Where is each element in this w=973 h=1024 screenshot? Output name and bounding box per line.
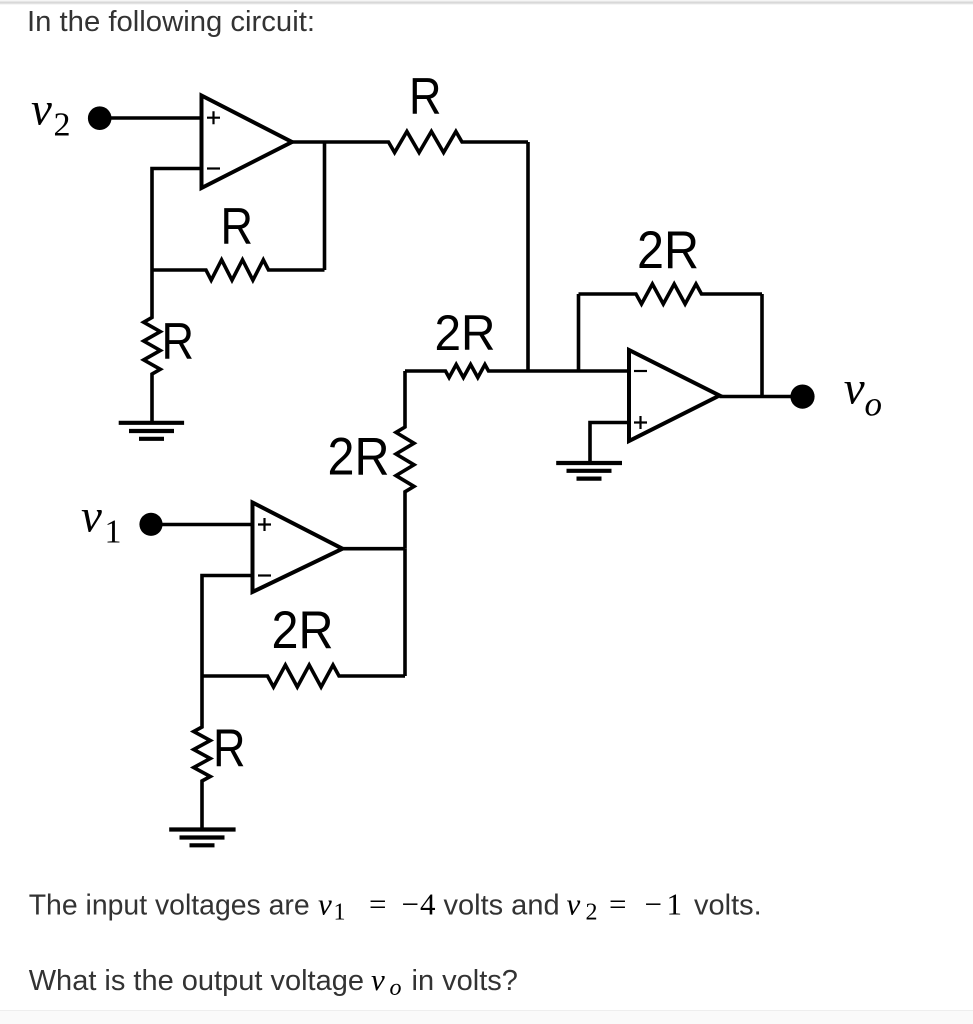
svg-text:v: v [844,363,865,415]
svg-text:−: − [402,887,419,922]
svg-text:1: 1 [667,887,683,922]
svg-text:2R: 2R [637,221,699,280]
svg-text:v: v [31,84,52,136]
resistor R (U2 node to ground) [194,676,211,828]
question text line 2 [29,962,518,1001]
svg-text:in volts?: in volts? [412,965,518,997]
bottom strip [0,1011,973,1024]
svg-text:2R: 2R [435,305,496,361]
ground (U2 R) [169,830,235,846]
svg-text:2: 2 [54,107,71,144]
resistor 2R (vertical) [396,371,414,549]
svg-text:R: R [213,719,246,778]
svg-text:1: 1 [334,900,346,926]
wire vertical node down to U2 feedback [403,549,407,676]
svg-text:2R: 2R [272,601,334,660]
svg-text:=: = [369,887,386,922]
svg-text:v: v [371,962,385,997]
svg-text:−: − [645,887,662,922]
node vo [790,385,814,409]
svg-text:v: v [318,887,332,922]
svg-text:R: R [162,313,195,371]
svg-text:2R: 2R [328,428,390,487]
svg-text:o: o [390,975,402,1001]
svg-text:volts and: volts and [444,890,560,922]
wire U3 feedback up [577,294,581,371]
resistor R (U1 feedback) [152,260,325,280]
top border strip [0,0,973,2]
wire U1 inverting input left and down [152,169,203,271]
svg-text:v: v [567,887,581,922]
op-amp U1 [202,96,293,189]
node v2 [88,106,112,130]
wire U3 noninverting input to ground [590,423,629,462]
svg-text:volts.: volts. [694,890,762,922]
wire U2 inverting input left and down [202,576,253,677]
op-amp U2 [253,503,343,593]
svg-text:1: 1 [105,514,122,551]
resistor R (U1 output series) [292,132,528,153]
wire v1 to U2 + input [159,523,253,527]
svg-text:What is the output voltage: What is the output voltage [29,965,364,997]
ground (U3 + input) [556,463,622,479]
wire node down to summing line [526,142,530,371]
svg-text:o: o [865,385,883,424]
wire U2 output to vertical node [343,547,406,551]
svg-text:v: v [81,491,102,543]
resistor R (U1 node to ground) [144,270,161,421]
question text line 1 [29,887,762,926]
wire feedback down to U3 output [760,294,764,397]
wire v2 to U1 + input [108,116,203,120]
svg-text:R: R [409,68,442,126]
svg-text:In the following circuit:: In the following circuit: [27,6,315,38]
svg-text:4: 4 [420,887,436,922]
resistor 2R (series into U3 inverting input) [405,365,629,378]
resistor 2R (U2 feedback) [202,665,405,687]
wire U3 output to vo [720,395,796,399]
wire feedback node up to U1 output [323,142,327,270]
svg-text:2: 2 [586,900,598,926]
svg-text:=: = [609,887,626,922]
resistor 2R (U3 feedback) [579,284,763,304]
op-amp U3 [629,350,720,441]
svg-text:The input voltages are: The input voltages are [29,890,310,922]
node v1 [139,513,162,536]
svg-text:R: R [221,198,254,256]
ground (U1 R) [119,423,184,439]
